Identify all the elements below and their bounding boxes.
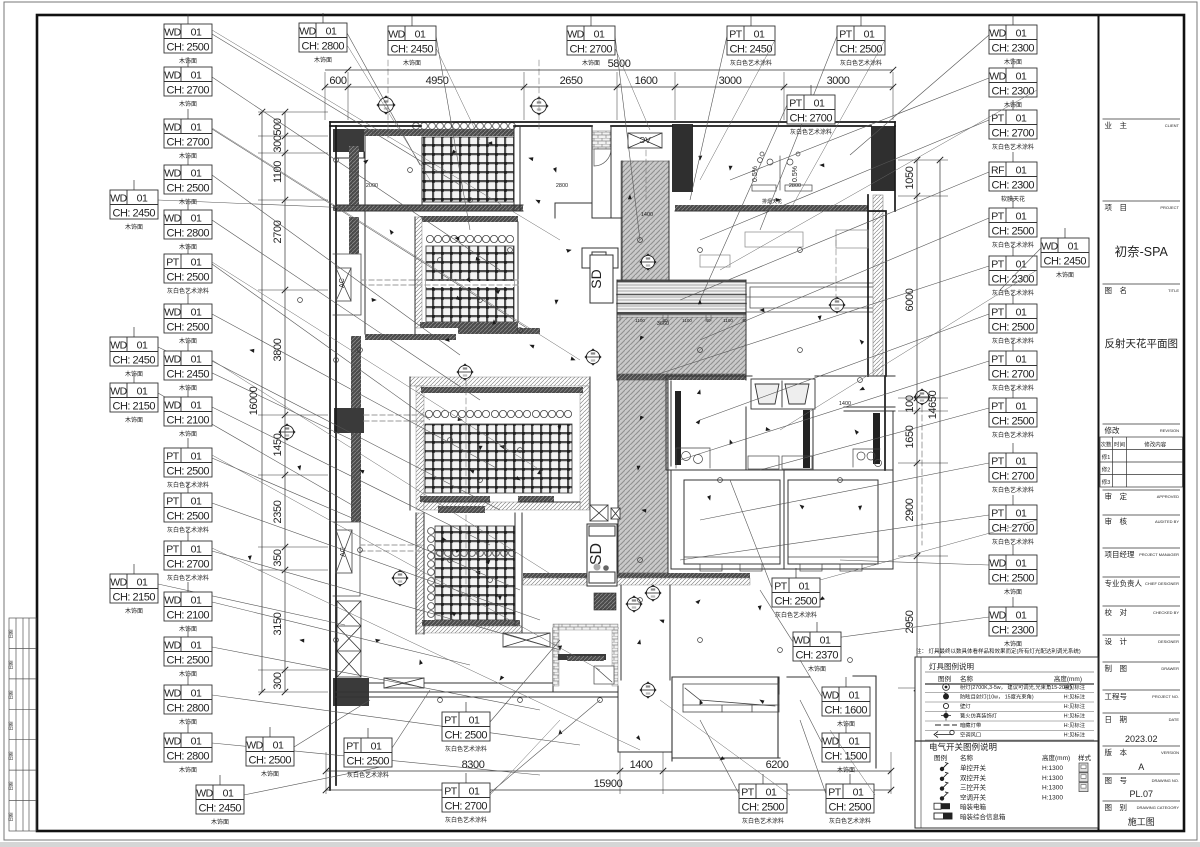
svg-text:01: 01 bbox=[469, 715, 480, 727]
svg-text:灰白色艺术涂料: 灰白色艺术涂料 bbox=[775, 611, 817, 619]
svg-text:CH: 2700: CH: 2700 bbox=[167, 136, 210, 148]
room4 bottom hatch ring bbox=[416, 626, 522, 633]
svg-text:PT: PT bbox=[166, 496, 180, 508]
svg-text:CH: 2450: CH: 2450 bbox=[113, 207, 156, 219]
callout PT01 CH2500 at 739,784 bbox=[700, 720, 739, 794]
svg-text:1100: 1100 bbox=[635, 318, 645, 323]
svg-text:WD: WD bbox=[299, 26, 316, 38]
svg-text:灰白色艺术涂料: 灰白色艺术涂料 bbox=[992, 538, 1034, 546]
svg-text:PT: PT bbox=[839, 29, 853, 41]
svg-text:单控开关: 单控开关 bbox=[960, 763, 987, 772]
svg-text:01: 01 bbox=[191, 496, 202, 508]
title field 校 对 bbox=[1103, 605, 1181, 607]
svg-text:暗装电箱: 暗装电箱 bbox=[960, 802, 987, 811]
svg-text:1100: 1100 bbox=[682, 318, 692, 323]
elevation symbol bottom-center bbox=[640, 682, 656, 698]
svg-text:2800: 2800 bbox=[789, 183, 801, 189]
svg-text:CH: 2300: CH: 2300 bbox=[992, 624, 1035, 636]
title field 审 核 bbox=[1103, 514, 1181, 516]
svg-text:01: 01 bbox=[273, 740, 284, 752]
callout WD01 CH2450 at 196,785 bbox=[244, 765, 390, 795]
svg-text:灰白色艺术涂料: 灰白色艺术涂料 bbox=[167, 574, 209, 582]
small fan box bbox=[594, 666, 614, 684]
svg-text:木饰面: 木饰面 bbox=[403, 59, 421, 67]
svg-text:灰白色艺术涂料: 灰白色艺术涂料 bbox=[445, 816, 487, 824]
svg-text:木饰面: 木饰面 bbox=[125, 223, 143, 231]
callout PT01 CH2700 at 442,783 bbox=[490, 700, 600, 793]
svg-text:PT: PT bbox=[991, 113, 1005, 125]
svg-text:PT: PT bbox=[346, 741, 360, 753]
SD room lower bbox=[587, 524, 617, 586]
svg-text:CH: 2700: CH: 2700 bbox=[445, 800, 488, 812]
lattice ceiling room 2 bbox=[426, 246, 514, 322]
interior partition walls bbox=[336, 126, 895, 752]
svg-text:01: 01 bbox=[191, 451, 202, 463]
fan door top-center bbox=[594, 149, 611, 166]
svg-text:H:见标注: H:见标注 bbox=[1064, 721, 1086, 729]
bottom-right room walls bbox=[672, 676, 876, 768]
svg-text:1400: 1400 bbox=[839, 401, 851, 407]
lattice ceiling room 3 (large) bbox=[425, 424, 572, 493]
svg-text:CH: 2300: CH: 2300 bbox=[992, 273, 1035, 285]
corridor south wall hatch bbox=[523, 578, 587, 585]
svg-text:电气开关图例说明: 电气开关图例说明 bbox=[929, 742, 997, 752]
svg-text:CH: 2500: CH: 2500 bbox=[167, 271, 210, 283]
svg-text:修改内容: 修改内容 bbox=[1144, 441, 1167, 449]
callout PT01 CH2700 at 989,505 bbox=[680, 515, 989, 560]
legend outer box bbox=[915, 657, 1098, 828]
bed left bbox=[684, 480, 780, 564]
svg-text:WD: WD bbox=[164, 400, 181, 412]
callout WD01 CH2500 at 246,737 bbox=[294, 700, 370, 747]
svg-text:01: 01 bbox=[766, 787, 777, 799]
svg-text:01: 01 bbox=[1016, 558, 1027, 570]
svg-text:设 计: 设 计 bbox=[1105, 636, 1128, 646]
svg-text:WD: WD bbox=[196, 788, 213, 800]
wood band left wall upper bbox=[349, 146, 359, 205]
svg-text:TITLE: TITLE bbox=[1168, 288, 1179, 293]
column C1 top-left bbox=[333, 129, 364, 152]
svg-text:CH: 2300: CH: 2300 bbox=[992, 42, 1035, 54]
svg-text:WD: WD bbox=[164, 736, 181, 748]
svg-text:SD: SD bbox=[588, 269, 604, 288]
room4 top dense band bbox=[438, 506, 485, 513]
callout PT01 CH2300 at 989,256 bbox=[640, 266, 989, 380]
column C3 left-bottom bbox=[333, 678, 369, 706]
svg-text:灯具图例说明: 灯具图例说明 bbox=[929, 661, 974, 671]
elevation symbol top-center bbox=[530, 97, 548, 115]
svg-text:A: A bbox=[1138, 762, 1144, 772]
svg-text:反射天花平面图: 反射天花平面图 bbox=[1105, 337, 1179, 350]
svg-text:WD: WD bbox=[110, 193, 127, 205]
elevation symbol left margin bbox=[279, 424, 295, 440]
svg-text:PT: PT bbox=[729, 29, 743, 41]
svg-text:CH: 2100: CH: 2100 bbox=[167, 609, 210, 621]
svg-text:修1: 修1 bbox=[1102, 453, 1111, 461]
svg-text:2950: 2950 bbox=[904, 610, 916, 633]
svg-text:350: 350 bbox=[272, 549, 284, 566]
svg-text:CH: 2500: CH: 2500 bbox=[167, 182, 210, 194]
svg-text:01: 01 bbox=[137, 577, 148, 589]
band between room1 and room2 bbox=[333, 205, 523, 211]
room2 top dense band bbox=[420, 216, 518, 222]
svg-text:CH: 2150: CH: 2150 bbox=[113, 591, 156, 603]
bed foot boxes bbox=[684, 557, 878, 571]
svg-text:CH: 2700: CH: 2700 bbox=[992, 368, 1035, 380]
elevation symbol top-left bbox=[377, 96, 395, 114]
svg-text:01: 01 bbox=[1016, 610, 1027, 622]
svg-text:DRAWING NO.: DRAWING NO. bbox=[1152, 778, 1179, 783]
svg-text:注： 灯具最终以数具体看样品和效果而定(所有灯光配达利调光系: 注： 灯具最终以数具体看样品和效果而定(所有灯光配达利调光系统) bbox=[916, 647, 1081, 655]
svg-text:CH: 2450: CH: 2450 bbox=[199, 802, 242, 814]
svg-text:CH: 2500: CH: 2500 bbox=[167, 465, 210, 477]
legend divider bbox=[915, 740, 1098, 742]
svg-text:PROJECT: PROJECT bbox=[1160, 205, 1179, 210]
svg-text:项 目: 项 目 bbox=[1105, 203, 1128, 212]
vent X bottom left bbox=[384, 678, 424, 688]
lattice ceiling room 1 (top) bbox=[422, 137, 514, 202]
svg-text:RF: RF bbox=[991, 165, 1004, 177]
svg-text:2350: 2350 bbox=[272, 500, 284, 523]
callout WD01 CH2300 at 989,25 bbox=[850, 35, 989, 155]
shaft X center bbox=[590, 505, 608, 521]
callout PT01 CH2700 at 787,95 bbox=[700, 105, 787, 300]
svg-text:灰白色艺术涂料: 灰白色艺术涂料 bbox=[167, 287, 209, 295]
closet with louver doors bbox=[751, 379, 815, 409]
title field 图 号 bbox=[1103, 773, 1181, 775]
svg-text:6200: 6200 bbox=[766, 759, 789, 771]
svg-text:WD: WD bbox=[989, 610, 1006, 622]
svg-text:01: 01 bbox=[191, 688, 202, 700]
svg-text:CH: 2300: CH: 2300 bbox=[992, 85, 1035, 97]
svg-text:H:见标注: H:见标注 bbox=[1064, 693, 1086, 701]
svg-text:CH: 2700: CH: 2700 bbox=[992, 522, 1035, 534]
svg-text:300: 300 bbox=[272, 135, 284, 152]
svg-text:01: 01 bbox=[137, 340, 148, 352]
svg-text:3000: 3000 bbox=[827, 75, 850, 87]
legend row sw1 bbox=[940, 767, 944, 771]
svg-text:PT: PT bbox=[991, 211, 1005, 223]
svg-text:PT: PT bbox=[991, 259, 1005, 271]
svg-text:CHECKED BY: CHECKED BY bbox=[1153, 610, 1179, 615]
title field 版 本 bbox=[1103, 745, 1181, 747]
svg-text:暗藏灯带: 暗藏灯带 bbox=[960, 721, 982, 729]
svg-text:WD: WD bbox=[164, 168, 181, 180]
callout WD01 CH2300 at 989,607 bbox=[820, 617, 989, 640]
svg-text:H:1300: H:1300 bbox=[1042, 765, 1063, 772]
elevation symbol left wall bbox=[392, 570, 408, 586]
svg-text:CH: 2700: CH: 2700 bbox=[790, 112, 833, 124]
svg-text:1450: 1450 bbox=[272, 433, 284, 456]
callout PT01 CH2700 at 989,351 bbox=[680, 361, 989, 460]
svg-text:WD: WD bbox=[110, 386, 127, 398]
svg-text:01: 01 bbox=[469, 786, 480, 798]
svg-text:CH: 1600: CH: 1600 bbox=[825, 704, 868, 716]
legend row sw2 bbox=[940, 777, 944, 781]
svg-text:PT: PT bbox=[166, 257, 180, 269]
callout WD01 CH2700 at 567,26 bbox=[615, 36, 640, 240]
room2 left hatched wall strip bbox=[415, 217, 422, 328]
callout PT01 CH2500 at 989,208 bbox=[700, 218, 989, 340]
svg-text:灰白色艺术涂料: 灰白色艺术涂料 bbox=[992, 431, 1034, 439]
bathroom wall strip c bbox=[873, 413, 880, 464]
svg-text:PROJECT MANAGER: PROJECT MANAGER bbox=[1139, 552, 1179, 557]
svg-text:4950: 4950 bbox=[426, 75, 449, 87]
svg-text:项目经理: 项目经理 bbox=[1105, 549, 1135, 559]
svg-text:01: 01 bbox=[1016, 401, 1027, 413]
svg-text:01: 01 bbox=[191, 27, 202, 39]
corridor diagonal hatch (lower) bbox=[618, 380, 668, 573]
svg-text:PT: PT bbox=[991, 401, 1005, 413]
legend row vent bbox=[936, 734, 952, 736]
callout WD01 CH2500 at 164,304 bbox=[212, 314, 500, 470]
svg-text:01: 01 bbox=[864, 29, 875, 41]
column C4 corridor top bbox=[672, 124, 693, 192]
svg-text:CH: 2500: CH: 2500 bbox=[445, 729, 488, 741]
title field 图 别 bbox=[1103, 800, 1181, 802]
room3 hatched wall ring bbox=[410, 377, 590, 386]
svg-text:篝火仿真装饰灯: 篝火仿真装饰灯 bbox=[960, 712, 998, 720]
svg-text:H:见标注: H:见标注 bbox=[1064, 702, 1086, 710]
callout PT01 CH2500 at 164,254 bbox=[212, 264, 430, 420]
corridor diagonal hatch (wide mid) bbox=[617, 317, 746, 374]
svg-text:灰白色艺术涂料: 灰白色艺术涂料 bbox=[840, 59, 882, 67]
svg-text:高度(mm): 高度(mm) bbox=[1054, 674, 1082, 683]
svg-text:REVISION: REVISION bbox=[1160, 428, 1179, 433]
FCU dark block left-middle bbox=[334, 408, 364, 433]
top dimension line total 5800 bbox=[325, 69, 893, 71]
legend row fire bbox=[943, 713, 948, 718]
scallop row room1 top bbox=[413, 123, 516, 130]
svg-text:时间: 时间 bbox=[1114, 441, 1125, 449]
dashed duct lines AC2 bbox=[360, 545, 424, 551]
dense band over room1 bbox=[364, 129, 514, 136]
svg-text:修2: 修2 bbox=[1102, 466, 1111, 474]
svg-text:H:见标注: H:见标注 bbox=[1064, 731, 1086, 739]
svg-text:日 期: 日 期 bbox=[1105, 715, 1128, 724]
svg-text:01: 01 bbox=[1016, 307, 1027, 319]
svg-text:2023.02: 2023.02 bbox=[1125, 734, 1158, 744]
centerline dashed verticals bbox=[388, 60, 836, 600]
title field 设 计 bbox=[1103, 634, 1181, 636]
svg-text:14650: 14650 bbox=[927, 390, 939, 419]
svg-text:灰白色艺术涂料: 灰白色艺术涂料 bbox=[992, 486, 1034, 494]
svg-text:3150: 3150 bbox=[272, 612, 284, 635]
svg-text:版 本: 版 本 bbox=[1105, 747, 1128, 757]
callout PT01 CH2500 at 772,578 bbox=[730, 480, 772, 588]
callout PT01 CH2500 at 164,448 bbox=[212, 458, 520, 590]
outer and main walls bbox=[330, 122, 895, 790]
svg-text:1100: 1100 bbox=[723, 318, 733, 323]
svg-text:三控开关: 三控开关 bbox=[960, 783, 987, 792]
staggered bands below room2 bbox=[458, 328, 540, 334]
svg-text:名称: 名称 bbox=[960, 753, 974, 762]
svg-text:PT: PT bbox=[166, 451, 180, 463]
legend row strip bbox=[935, 724, 957, 726]
svg-text:1400: 1400 bbox=[630, 759, 653, 771]
svg-text:WD: WD bbox=[164, 122, 181, 134]
svg-text:木饰面: 木饰面 bbox=[1056, 271, 1074, 279]
svg-text:WD: WD bbox=[164, 688, 181, 700]
svg-text:WD: WD bbox=[793, 635, 810, 647]
room4 left hatched wall strip bbox=[416, 513, 424, 634]
svg-text:CH: 2500: CH: 2500 bbox=[992, 225, 1035, 237]
bathroom wall strip a bbox=[675, 391, 681, 465]
svg-text:01: 01 bbox=[326, 26, 337, 38]
svg-text:AUDITED BY: AUDITED BY bbox=[1155, 519, 1179, 524]
title field 业 主 bbox=[1103, 118, 1181, 120]
svg-text:01: 01 bbox=[853, 787, 864, 799]
svg-text:灰白色艺术涂料: 灰白色艺术涂料 bbox=[445, 745, 487, 753]
room3 bottom dense bands bbox=[420, 496, 490, 502]
svg-text:01: 01 bbox=[191, 544, 202, 556]
svg-text:01: 01 bbox=[799, 581, 810, 593]
svg-text:01: 01 bbox=[814, 98, 825, 110]
svg-text:双控开关: 双控开关 bbox=[960, 773, 987, 782]
callout WD01 CH2150 at 110,383 bbox=[158, 393, 352, 505]
svg-text:木饰面: 木饰面 bbox=[179, 430, 197, 438]
svg-text:CH: 2500: CH: 2500 bbox=[992, 321, 1035, 333]
svg-text:01: 01 bbox=[1016, 354, 1027, 366]
svg-text:AC: AC bbox=[340, 547, 347, 557]
callout WD01 CH2700 at 164,119 bbox=[212, 129, 530, 330]
elevation symbol room3 top bbox=[457, 364, 473, 380]
svg-text:审 核: 审 核 bbox=[1105, 516, 1128, 526]
svg-text:CH: 2500: CH: 2500 bbox=[167, 654, 210, 666]
svg-text:WD: WD bbox=[164, 595, 181, 607]
svg-text:木饰面: 木饰面 bbox=[261, 770, 279, 778]
brick block top-center bbox=[592, 131, 611, 149]
bed right bbox=[788, 480, 878, 564]
svg-text:木饰面: 木饰面 bbox=[211, 818, 229, 826]
callout WD01 CH2500 at 989,555 bbox=[840, 560, 989, 565]
svg-text:PT: PT bbox=[991, 508, 1005, 520]
svg-text:木饰面: 木饰面 bbox=[808, 665, 826, 673]
svg-text:CH: 2800: CH: 2800 bbox=[167, 750, 210, 762]
svg-text:500: 500 bbox=[272, 118, 284, 135]
svg-text:15900: 15900 bbox=[594, 778, 623, 790]
louver band small dims bbox=[620, 315, 744, 321]
svg-text:CH: 2500: CH: 2500 bbox=[840, 43, 883, 55]
corridor diagonal hatch (upper) bbox=[621, 161, 669, 280]
svg-text:图 号: 图 号 bbox=[1105, 776, 1128, 785]
callout WD01 CH2100 at 164,592 bbox=[212, 602, 470, 665]
callout PT01 CH2500 at 826,784 bbox=[800, 720, 826, 794]
long leader lines bundle bbox=[212, 30, 1037, 795]
svg-text:H:1300: H:1300 bbox=[1042, 785, 1063, 792]
brick walled room bottom-center bbox=[553, 624, 618, 686]
svg-text:CH: 2500: CH: 2500 bbox=[992, 572, 1035, 584]
title field 日 期 bbox=[1103, 712, 1181, 714]
svg-text:PROJECT NO.: PROJECT NO. bbox=[1152, 694, 1179, 699]
svg-text:DRAWER: DRAWER bbox=[1161, 666, 1179, 671]
left dimension line segments bbox=[258, 112, 328, 692]
bathroom counters and sinks bbox=[676, 448, 882, 469]
svg-text:PT: PT bbox=[444, 786, 458, 798]
svg-text:CHIEF DESIGNER: CHIEF DESIGNER bbox=[1145, 581, 1179, 586]
bench counter right of slat band bbox=[746, 283, 878, 312]
dense band left of room bbox=[567, 656, 604, 661]
svg-text:壁灯: 壁灯 bbox=[960, 702, 971, 710]
corridor slat band bbox=[617, 280, 746, 315]
corridor tail walls bbox=[621, 585, 670, 680]
svg-text:施工图: 施工图 bbox=[1128, 816, 1155, 827]
svg-text:PT: PT bbox=[991, 307, 1005, 319]
svg-text:灰白色艺术涂料: 灰白色艺术涂料 bbox=[347, 771, 389, 779]
svg-text:01: 01 bbox=[1016, 211, 1027, 223]
elevation symbol top-center room bbox=[640, 254, 656, 270]
svg-text:1100: 1100 bbox=[272, 161, 284, 183]
right dimension line bbox=[898, 160, 948, 688]
svg-text:H:1300: H:1300 bbox=[1042, 775, 1063, 782]
svg-text:01: 01 bbox=[1016, 508, 1027, 520]
svg-text:SD: SD bbox=[588, 543, 605, 565]
svg-text:01: 01 bbox=[191, 354, 202, 366]
callout WD01 CH2800 at 164,210 bbox=[212, 220, 480, 400]
svg-text:制 图: 制 图 bbox=[1105, 663, 1128, 673]
svg-text:CH: 2800: CH: 2800 bbox=[167, 227, 210, 239]
svg-text:01: 01 bbox=[594, 29, 605, 41]
svg-text:40: 40 bbox=[662, 318, 668, 323]
svg-text:WD: WD bbox=[822, 736, 839, 748]
corridor dense band below wide block bbox=[617, 374, 746, 380]
svg-text:H:见标注: H:见标注 bbox=[1064, 683, 1086, 691]
callout WD01 CH2500 at 164,637 bbox=[212, 647, 540, 710]
legend row spot bbox=[943, 684, 950, 691]
svg-text:图例: 图例 bbox=[934, 753, 947, 762]
svg-text:CH: 2500: CH: 2500 bbox=[347, 755, 390, 767]
svg-text:业 主: 业 主 bbox=[1105, 120, 1128, 130]
scallop row room3 bbox=[425, 410, 571, 417]
callout WD01 CH2700 at 164,67 bbox=[212, 77, 500, 270]
svg-text:WD: WD bbox=[989, 558, 1006, 570]
svg-text:WD: WD bbox=[110, 340, 127, 352]
callout WD01 CH2800 at 164,733 bbox=[212, 743, 540, 775]
svg-text:AC: AC bbox=[339, 278, 346, 288]
svg-text:300: 300 bbox=[272, 672, 284, 689]
svg-text:01: 01 bbox=[191, 257, 202, 269]
callout PT01 CH2500 at 344,738 bbox=[392, 690, 430, 748]
svg-text:PT: PT bbox=[789, 98, 803, 110]
svg-text:01: 01 bbox=[191, 213, 202, 225]
callout PT01 CH2500 at 837,26 bbox=[760, 36, 837, 230]
svg-text:3000: 3000 bbox=[719, 75, 742, 87]
room4 bottom dense band bbox=[422, 620, 520, 626]
dashed duct lines AC1 bbox=[361, 280, 518, 285]
svg-text:01: 01 bbox=[137, 386, 148, 398]
svg-text:WD: WD bbox=[164, 354, 181, 366]
svg-text:CH: 2370: CH: 2370 bbox=[796, 649, 839, 661]
svg-text:木饰面: 木饰面 bbox=[314, 56, 332, 64]
svg-text:CH: 2500: CH: 2500 bbox=[167, 510, 210, 522]
svg-text:01: 01 bbox=[754, 29, 765, 41]
svg-text:WD: WD bbox=[1041, 241, 1058, 253]
legend row box2 bbox=[934, 813, 952, 819]
AC X-box top bbox=[628, 133, 662, 148]
svg-text:01: 01 bbox=[191, 122, 202, 134]
svg-text:CH: 2700: CH: 2700 bbox=[167, 558, 210, 570]
callout WD01 CH2500 at 164,165 bbox=[212, 175, 460, 355]
svg-text:01: 01 bbox=[191, 736, 202, 748]
svg-text:WD: WD bbox=[388, 29, 405, 41]
callout PT01 CH2700 at 989,110 bbox=[700, 120, 989, 240]
title field 工程号 bbox=[1103, 689, 1181, 691]
svg-text:1050: 1050 bbox=[904, 166, 916, 189]
room3 top dense band bbox=[421, 387, 583, 393]
svg-text:灰白色艺术涂料: 灰白色艺术涂料 bbox=[829, 817, 871, 825]
callout WD01 CH2100 at 164,397 bbox=[212, 407, 490, 545]
svg-text:01: 01 bbox=[191, 70, 202, 82]
